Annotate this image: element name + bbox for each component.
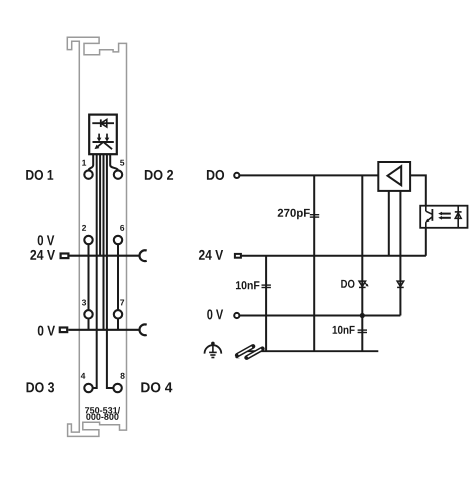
suppressor symbol in box: [93, 134, 114, 150]
DIN rail contact symbol: [235, 346, 263, 358]
diode D3: [397, 281, 404, 287]
terminal 4: [81, 373, 93, 392]
capacitor C2 10nF: [236, 256, 271, 351]
wire driver to diode D3: [399, 191, 401, 316]
label 0 V row 2: [38, 235, 55, 245]
wire terminal 7 to 0V rail: [117, 318, 119, 330]
electronics box U1: [89, 115, 117, 155]
terminal 5: [114, 160, 124, 179]
terminal 2: [82, 225, 93, 244]
module body outline: [67, 37, 126, 436]
node 24 V: [199, 250, 241, 260]
wire from box to 0V rail: [103, 154, 105, 330]
capacitor C1 270pF: [278, 175, 320, 351]
wire 0V line: [240, 315, 363, 317]
junction dot: [360, 313, 365, 318]
terminal 3: [82, 299, 93, 318]
label DO 4: [141, 382, 172, 392]
label DO 2: [145, 170, 173, 180]
terminal 1: [82, 160, 92, 179]
0V power jumper rail: [60, 324, 147, 335]
wire terminal 2 to terminal 3: [88, 244, 90, 311]
terminal 8: [113, 373, 124, 392]
label DO 3: [27, 382, 55, 392]
wire bus to terminal 8: [107, 154, 113, 388]
wire junction to diode D3 branch: [362, 315, 400, 317]
wire terminal 3 to 0V rail: [88, 318, 90, 330]
wire terminal 6 to terminal 7: [117, 244, 119, 311]
wire V3 from DO line to LED: [361, 175, 363, 315]
label 24 V: [30, 250, 55, 260]
ground symbol: [205, 342, 222, 358]
driver U2: [378, 162, 410, 191]
LED DO: [341, 280, 368, 288]
terminal 7: [114, 300, 124, 319]
wire from box to 24V rail: [99, 154, 101, 256]
wire driver to 24V: [388, 191, 390, 256]
wire DO line: [240, 174, 379, 176]
optocoupler U3: [420, 206, 467, 228]
wire fan from box to terminals 1 and 5: [89, 154, 119, 170]
node DO: [207, 170, 239, 180]
wire optocoupler to 24V rail: [425, 228, 427, 256]
ground rail: [246, 350, 378, 352]
wire bus to terminal 4: [93, 154, 97, 388]
capacitor C3 10nF: [333, 316, 367, 352]
diode D1 in box: [92, 119, 114, 127]
label DO 1: [26, 170, 53, 180]
wire driver output to optocoupler: [410, 175, 426, 205]
node 0 V: [207, 309, 239, 319]
24V power jumper rail: [61, 250, 147, 261]
label 750-531/000-800: [85, 407, 120, 420]
label 0 V rail: [38, 326, 55, 336]
wire 24V line: [242, 255, 426, 257]
terminal 6: [114, 225, 124, 244]
